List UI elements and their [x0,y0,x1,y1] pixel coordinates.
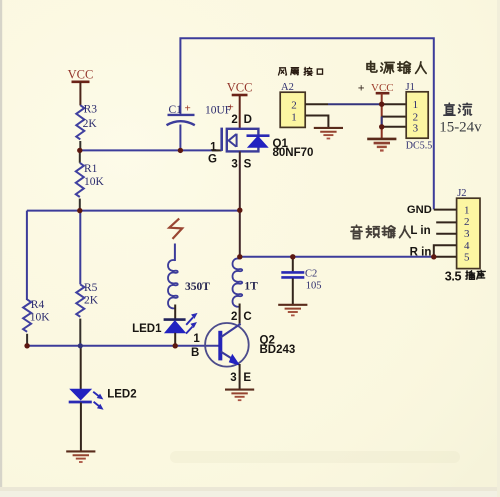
wire: S bus y=210 [27,210,240,212]
svg-text:1: 1 [464,204,470,216]
capacitor C2 [281,257,321,304]
LED2 [69,346,137,451]
svg-text:15-24v: 15-24v [439,120,482,136]
wire: A2 pin1 stub to ground [305,116,328,128]
svg-text:E: E [243,372,251,384]
svg-text:+: + [228,102,234,114]
wire: stub bolt to L1 [174,244,176,262]
svg-text:+: + [185,103,191,115]
resistor R4 [23,299,50,346]
svg-text:VCC: VCC [68,68,94,82]
connector J2 [457,188,480,269]
svg-text:D: D [244,114,252,126]
wire: J2 pin5 stub [434,256,457,258]
wire: J1 pin1 stub [382,103,407,105]
wire: J2 pin3 stub [436,233,456,235]
svg-text:S: S [244,158,252,170]
wire: gate lead dark [212,149,222,151]
svg-text:1: 1 [210,141,217,153]
svg-text:C: C [243,311,251,323]
wire: base bus y=345.8 [27,345,220,347]
svg-text:C2: C2 [305,269,317,280]
wire: J1 pin3 stub [382,126,407,128]
svg-text:LED1: LED1 [132,323,162,335]
wire: J2 pin4 stub [434,245,457,256]
svg-text:350T: 350T [185,281,210,293]
svg-text:R4: R4 [31,299,45,311]
svg-text:5: 5 [464,252,470,264]
svg-text:+: + [358,80,365,94]
ground under C2 [278,305,307,316]
svg-text:4: 4 [464,240,470,252]
label power input CJK [367,61,426,73]
wire: gate net horizontal y150 [80,149,219,151]
svg-text:R5: R5 [84,282,98,294]
svg-text:2K: 2K [84,294,99,306]
resistor R5 [76,211,98,346]
wire: J1 pin2 stub [382,116,407,118]
svg-text:R1: R1 [84,163,98,175]
VCC symbol left [68,68,94,106]
svg-text:3: 3 [413,122,419,134]
svg-text:2: 2 [231,114,237,126]
connector A2 [280,82,305,127]
svg-text:2: 2 [291,100,297,112]
resistor R3 [76,104,97,151]
svg-text:2K: 2K [83,118,98,130]
ground under J1 VCC branch [367,139,396,151]
ground under LED2 [66,451,95,462]
wire: J2 pin2 stub [436,221,456,223]
svg-text:J2: J2 [457,188,466,199]
wire: A2 pin2 stub [305,103,328,105]
wire: top loop C1 top to J2 GND [180,38,433,209]
svg-text:R3: R3 [84,104,98,116]
svg-text:10K: 10K [84,176,105,188]
svg-text:DC5.5: DC5.5 [406,141,432,152]
svg-text:GND: GND [407,204,432,216]
label fan interface CJK [279,67,323,75]
transistor Q2 BD243 [205,323,295,367]
svg-text:VCC: VCC [227,80,253,94]
wire: A2 pin2 to VCC node [328,103,382,105]
svg-text:1: 1 [291,111,297,123]
connector J1 [406,82,433,152]
svg-text:1: 1 [413,99,419,111]
ground under A2 pin1 [314,128,343,139]
svg-text:105: 105 [306,281,322,292]
wire: Q2 emitter down [239,364,241,389]
svg-text:2: 2 [464,216,470,228]
label 10UF+ for C1 [205,102,234,117]
VCC symbol at J1 with plus [358,80,394,138]
wire: Q1 source down to R-in net [239,151,241,256]
wire: R-in net y=256.8 [240,256,434,258]
ground under Q2 emitter [225,390,254,401]
svg-text:80NF70: 80NF70 [273,147,314,159]
svg-text:R in: R in [410,246,432,258]
svg-text:1T: 1T [244,280,258,292]
svg-text:L in: L in [410,225,430,237]
VCC symbol at Q1 drain [227,80,253,129]
svg-text:LED2: LED2 [107,388,136,400]
inductor L2 1T [233,257,259,307]
wire: left branch down to R4 [26,211,28,300]
wire: L2 to Q2 collector [239,304,241,326]
label DC CJK 直流 [444,103,472,115]
LED1 [132,305,197,346]
svg-text:10K: 10K [30,311,51,323]
spark symbol above 350T [169,219,182,239]
svg-text:3.5: 3.5 [445,269,462,283]
inductor L1 350T [168,260,210,308]
svg-text:2: 2 [231,311,237,323]
wire: J2 pin1 stub [434,209,457,211]
svg-text:3: 3 [464,228,470,240]
svg-text:B: B [191,347,199,359]
transistor Q1 MOSFET 80NF70 [222,128,270,152]
svg-text:BD243: BD243 [260,344,296,356]
capacitor C1 [167,103,195,151]
resistor R1 [76,150,105,210]
label 3.5 jack [445,269,485,283]
svg-text:3: 3 [230,372,236,384]
svg-text:1: 1 [193,333,200,345]
svg-text:3: 3 [231,158,237,170]
label audio input CJK [351,225,410,238]
svg-text:G: G [208,154,217,166]
